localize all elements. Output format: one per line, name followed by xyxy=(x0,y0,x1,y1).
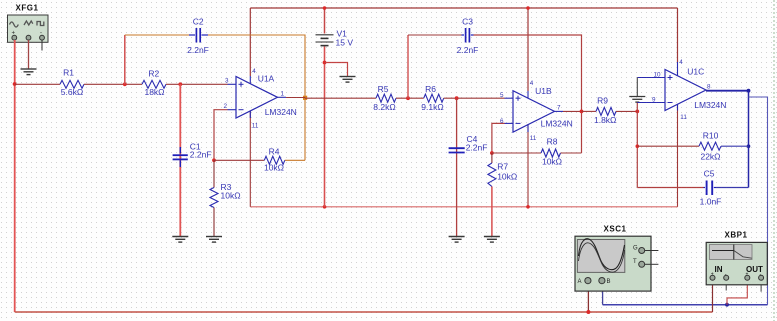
svg-text:11: 11 xyxy=(252,123,259,130)
wire: top +15V rail xyxy=(250,7,677,9)
wire: bottom rail to scope/bode xyxy=(15,311,713,313)
junction: U1B pin11 on ground rail xyxy=(526,205,530,209)
svg-text:R5: R5 xyxy=(378,84,389,94)
wire: scope B vertical xyxy=(602,284,604,305)
wire: XFG1 + terminal down to input node xyxy=(14,40,16,84)
wire: node4 down through C4 to ground xyxy=(456,98,458,236)
resistor R9 1.8k xyxy=(596,107,616,115)
svg-text:R1: R1 xyxy=(63,68,74,78)
svg-text:2.2nF: 2.2nF xyxy=(466,143,488,153)
page border (right, green dashed) xyxy=(773,0,775,321)
wire: bottom rail up to XBP1 IN+ xyxy=(712,280,714,312)
svg-text:8: 8 xyxy=(707,84,711,91)
svg-text:LM324N: LM324N xyxy=(541,119,573,129)
capacitor C5 1.0nF xyxy=(700,169,722,207)
stub: XBP1 IN- xyxy=(725,280,727,291)
svg-text:R6: R6 xyxy=(425,84,436,94)
wire: R1 to node1 to R2 xyxy=(84,83,142,85)
wire: output tap to bode/scope vertical xyxy=(749,97,768,305)
wire: R10 right to output vertical xyxy=(721,145,749,147)
svg-text:4: 4 xyxy=(530,80,534,87)
wire: U1B out to R9 xyxy=(582,110,597,112)
op-amp U1A xyxy=(224,68,297,130)
op-amp U1C xyxy=(637,59,726,121)
battery V1 15V xyxy=(316,29,354,48)
ground under R3 xyxy=(206,237,222,243)
resistor R6 9.1k xyxy=(424,94,444,102)
op-amp U1B xyxy=(500,80,573,142)
wire: C2 left (orange net) xyxy=(125,34,189,36)
svg-text:R10: R10 xyxy=(703,131,719,141)
svg-text:LM324N: LM324N xyxy=(265,107,297,117)
svg-text:C5: C5 xyxy=(704,169,715,179)
svg-text:A: A xyxy=(578,279,582,285)
capacitor C2 2.2nF xyxy=(187,17,209,56)
svg-text:4: 4 xyxy=(252,68,256,75)
svg-text:11: 11 xyxy=(680,114,687,121)
wire: node3 up to C3 xyxy=(407,35,409,98)
svg-text:2.2nF: 2.2nF xyxy=(190,149,212,159)
wire: U1B -in down to R7/R8 junction xyxy=(492,123,505,153)
oscilloscope XSC1 xyxy=(575,225,658,292)
svg-text:C3: C3 xyxy=(462,17,473,27)
wire: R4 right lead to feedback (orange) xyxy=(285,159,305,161)
svg-text:6: 6 xyxy=(500,118,504,125)
resistor R5 8.2k xyxy=(376,94,396,102)
node 1 (R1/R2/C2) xyxy=(123,82,127,86)
wire: ground distribution rail y=207 xyxy=(250,206,677,208)
wire: junction to R4 left xyxy=(214,159,264,161)
wire: junction to R8 xyxy=(492,152,541,154)
wire: U1C pin11 down to ground rail xyxy=(677,104,679,207)
function generator XFG1 xyxy=(8,4,49,43)
svg-text:T: T xyxy=(633,259,637,265)
node: R10 left xyxy=(636,144,640,148)
ground under R7 xyxy=(484,237,500,243)
resistor R2 18k xyxy=(142,80,166,88)
svg-text:10kΩ: 10kΩ xyxy=(264,163,284,173)
node 2 (R2 / C1 / +in) xyxy=(178,82,182,86)
ground at U1C + input xyxy=(629,97,645,103)
wire: V1 top lead to rail xyxy=(324,8,326,34)
resistor R8 10k xyxy=(541,149,561,157)
node: battery ground branch xyxy=(323,61,327,65)
resistor R1 5.6k xyxy=(60,80,84,88)
svg-text:C2: C2 xyxy=(193,17,204,27)
svg-text:1: 1 xyxy=(281,91,285,98)
node: scope A on bottom rail xyxy=(586,310,590,314)
wire: U1B pin11 down to ground rail xyxy=(527,124,529,207)
svg-text:9: 9 xyxy=(652,97,656,104)
ground under C4 xyxy=(449,237,465,243)
node: R3/R4/-in junction xyxy=(212,158,216,162)
wire: C3 right to U1B output loop xyxy=(474,35,582,153)
wire: U1A pin11 down to ground rail xyxy=(249,111,251,207)
wire: jog up to U1C -in lead xyxy=(636,103,638,112)
wire: U1C + lead to ground xyxy=(637,77,665,79)
svg-text:10kΩ: 10kΩ xyxy=(221,191,241,201)
svg-text:U1A: U1A xyxy=(258,74,275,84)
wire: input node to R1 xyxy=(15,83,60,85)
wire: C3 left xyxy=(408,34,462,36)
wire: output down to C5 xyxy=(748,91,750,188)
wire: node1 up to C2 xyxy=(124,35,126,84)
node: bode out junction xyxy=(725,303,729,307)
resistor R3 10k (vertical) xyxy=(213,160,215,187)
svg-text:10: 10 xyxy=(654,72,662,79)
wire: R5 to node3 to R6 xyxy=(396,97,424,99)
node 4 (R6 / C4 / +in U1B) xyxy=(455,96,459,100)
svg-text:R4: R4 xyxy=(269,147,280,157)
node 3 (R5/R6/C3) xyxy=(406,96,410,100)
svg-text:1.0nF: 1.0nF xyxy=(700,197,722,207)
svg-text:LM324N: LM324N xyxy=(694,100,726,110)
wire: branch to V1 ground xyxy=(325,63,348,77)
svg-text:U1B: U1B xyxy=(535,86,552,96)
capacitor C1 2.2nF xyxy=(173,142,212,168)
stub: XFG1 - terminal (unconnected) xyxy=(41,40,43,51)
wire: C5 left xyxy=(637,187,703,189)
svg-text:R2: R2 xyxy=(148,69,159,79)
node: R10 right xyxy=(747,144,751,148)
svg-text:3: 3 xyxy=(225,78,229,85)
junction on rail at V1 xyxy=(323,6,327,10)
resistor R10 22k xyxy=(699,142,721,150)
node: U1B output xyxy=(580,110,584,114)
node: U1A output (orange square) xyxy=(303,96,307,100)
node: U1C -in / feedback junction xyxy=(635,110,639,114)
svg-text:8.2kΩ: 8.2kΩ xyxy=(373,102,395,112)
wire: U1A -in down to R3/R4 junction xyxy=(214,110,228,161)
svg-text:IN: IN xyxy=(715,265,723,274)
node: U1C output xyxy=(747,89,751,93)
wire: U1C pin4 to rail xyxy=(677,8,679,62)
svg-text:22kΩ: 22kΩ xyxy=(700,152,720,162)
capacitor C3 2.2nF xyxy=(457,17,479,56)
wire: battery bottom down to ground rail xyxy=(324,47,326,207)
svg-text:U1C: U1C xyxy=(687,67,704,77)
wire: left vertical from input node to bottom rail xyxy=(14,84,16,312)
wire: C5 right to output vertical xyxy=(716,187,749,189)
wire: XFG1 common terminal to ground xyxy=(28,40,30,69)
svg-text:10kΩ: 10kΩ xyxy=(542,157,562,167)
svg-text:7: 7 xyxy=(557,105,561,112)
wire: U1A out node to R5 xyxy=(305,97,376,99)
svg-text:R7: R7 xyxy=(497,162,508,172)
svg-text:5: 5 xyxy=(500,92,504,99)
svg-text:5.6kΩ: 5.6kΩ xyxy=(61,87,83,97)
wire: U1A output to node xyxy=(286,97,305,99)
svg-text:R8: R8 xyxy=(547,137,558,147)
bode plotter XBP1 xyxy=(706,231,767,285)
wire: R8 right to feedback vertical xyxy=(561,152,582,154)
wire: U1C output (blue) xyxy=(706,90,749,92)
svg-text:15 V: 15 V xyxy=(336,38,354,48)
wire: R2 to U1A + input xyxy=(166,83,228,85)
svg-text:2.2nF: 2.2nF xyxy=(187,45,209,55)
svg-text:2.2nF: 2.2nF xyxy=(457,45,479,55)
junction on rail at U1B pin4 xyxy=(526,6,530,10)
svg-text:9.1kΩ: 9.1kΩ xyxy=(421,102,443,112)
svg-text:2: 2 xyxy=(224,103,228,110)
wire: U1B pin4 to rail xyxy=(527,8,529,91)
node: input node xyxy=(13,82,17,86)
ground under V1 xyxy=(340,77,356,83)
svg-text:11: 11 xyxy=(530,135,537,142)
capacitor C4 2.2nF xyxy=(449,134,488,153)
resistor R4 10k xyxy=(264,156,285,164)
ground under C1 xyxy=(172,237,188,243)
svg-text:XBP1: XBP1 xyxy=(725,231,748,240)
wire: node2 down through C1 to ground xyxy=(179,84,181,236)
wire: XBP1 OUT+ jog to output net xyxy=(727,280,747,305)
wire: U1B output to feedback node xyxy=(563,110,582,112)
svg-text:B: B xyxy=(607,279,611,285)
wire: R6 to U1B + input xyxy=(444,97,505,99)
wire: C2 right to feedback corner (orange) xyxy=(208,35,305,160)
wire: R9 to U1C -in node xyxy=(616,110,637,112)
wire: feedback vertical from -in node down xyxy=(636,111,638,187)
stub: XBP1 OUT- xyxy=(760,280,762,292)
svg-text:1.8kΩ: 1.8kΩ xyxy=(594,115,616,125)
junction: battery vertical on ground rail xyxy=(323,205,327,209)
wire: to R10 xyxy=(637,145,699,147)
ground under XFG1 xyxy=(21,69,37,75)
svg-text:10kΩ: 10kΩ xyxy=(497,172,517,182)
svg-text:G: G xyxy=(633,246,638,252)
svg-text:18kΩ: 18kΩ xyxy=(144,87,164,97)
resistor R7 10k (vertical) xyxy=(491,153,493,163)
wire: scope A vertical to bottom rail xyxy=(587,284,589,312)
wire: blue horizontal to scope B xyxy=(603,304,768,306)
svg-text:R9: R9 xyxy=(597,96,608,106)
node: R7/R8/-in junction xyxy=(490,151,494,155)
svg-text:XFG1: XFG1 xyxy=(16,4,39,13)
wire: U1A pin4 to rail xyxy=(249,8,251,76)
svg-text:XSC1: XSC1 xyxy=(604,225,627,234)
svg-text:4: 4 xyxy=(679,59,683,66)
